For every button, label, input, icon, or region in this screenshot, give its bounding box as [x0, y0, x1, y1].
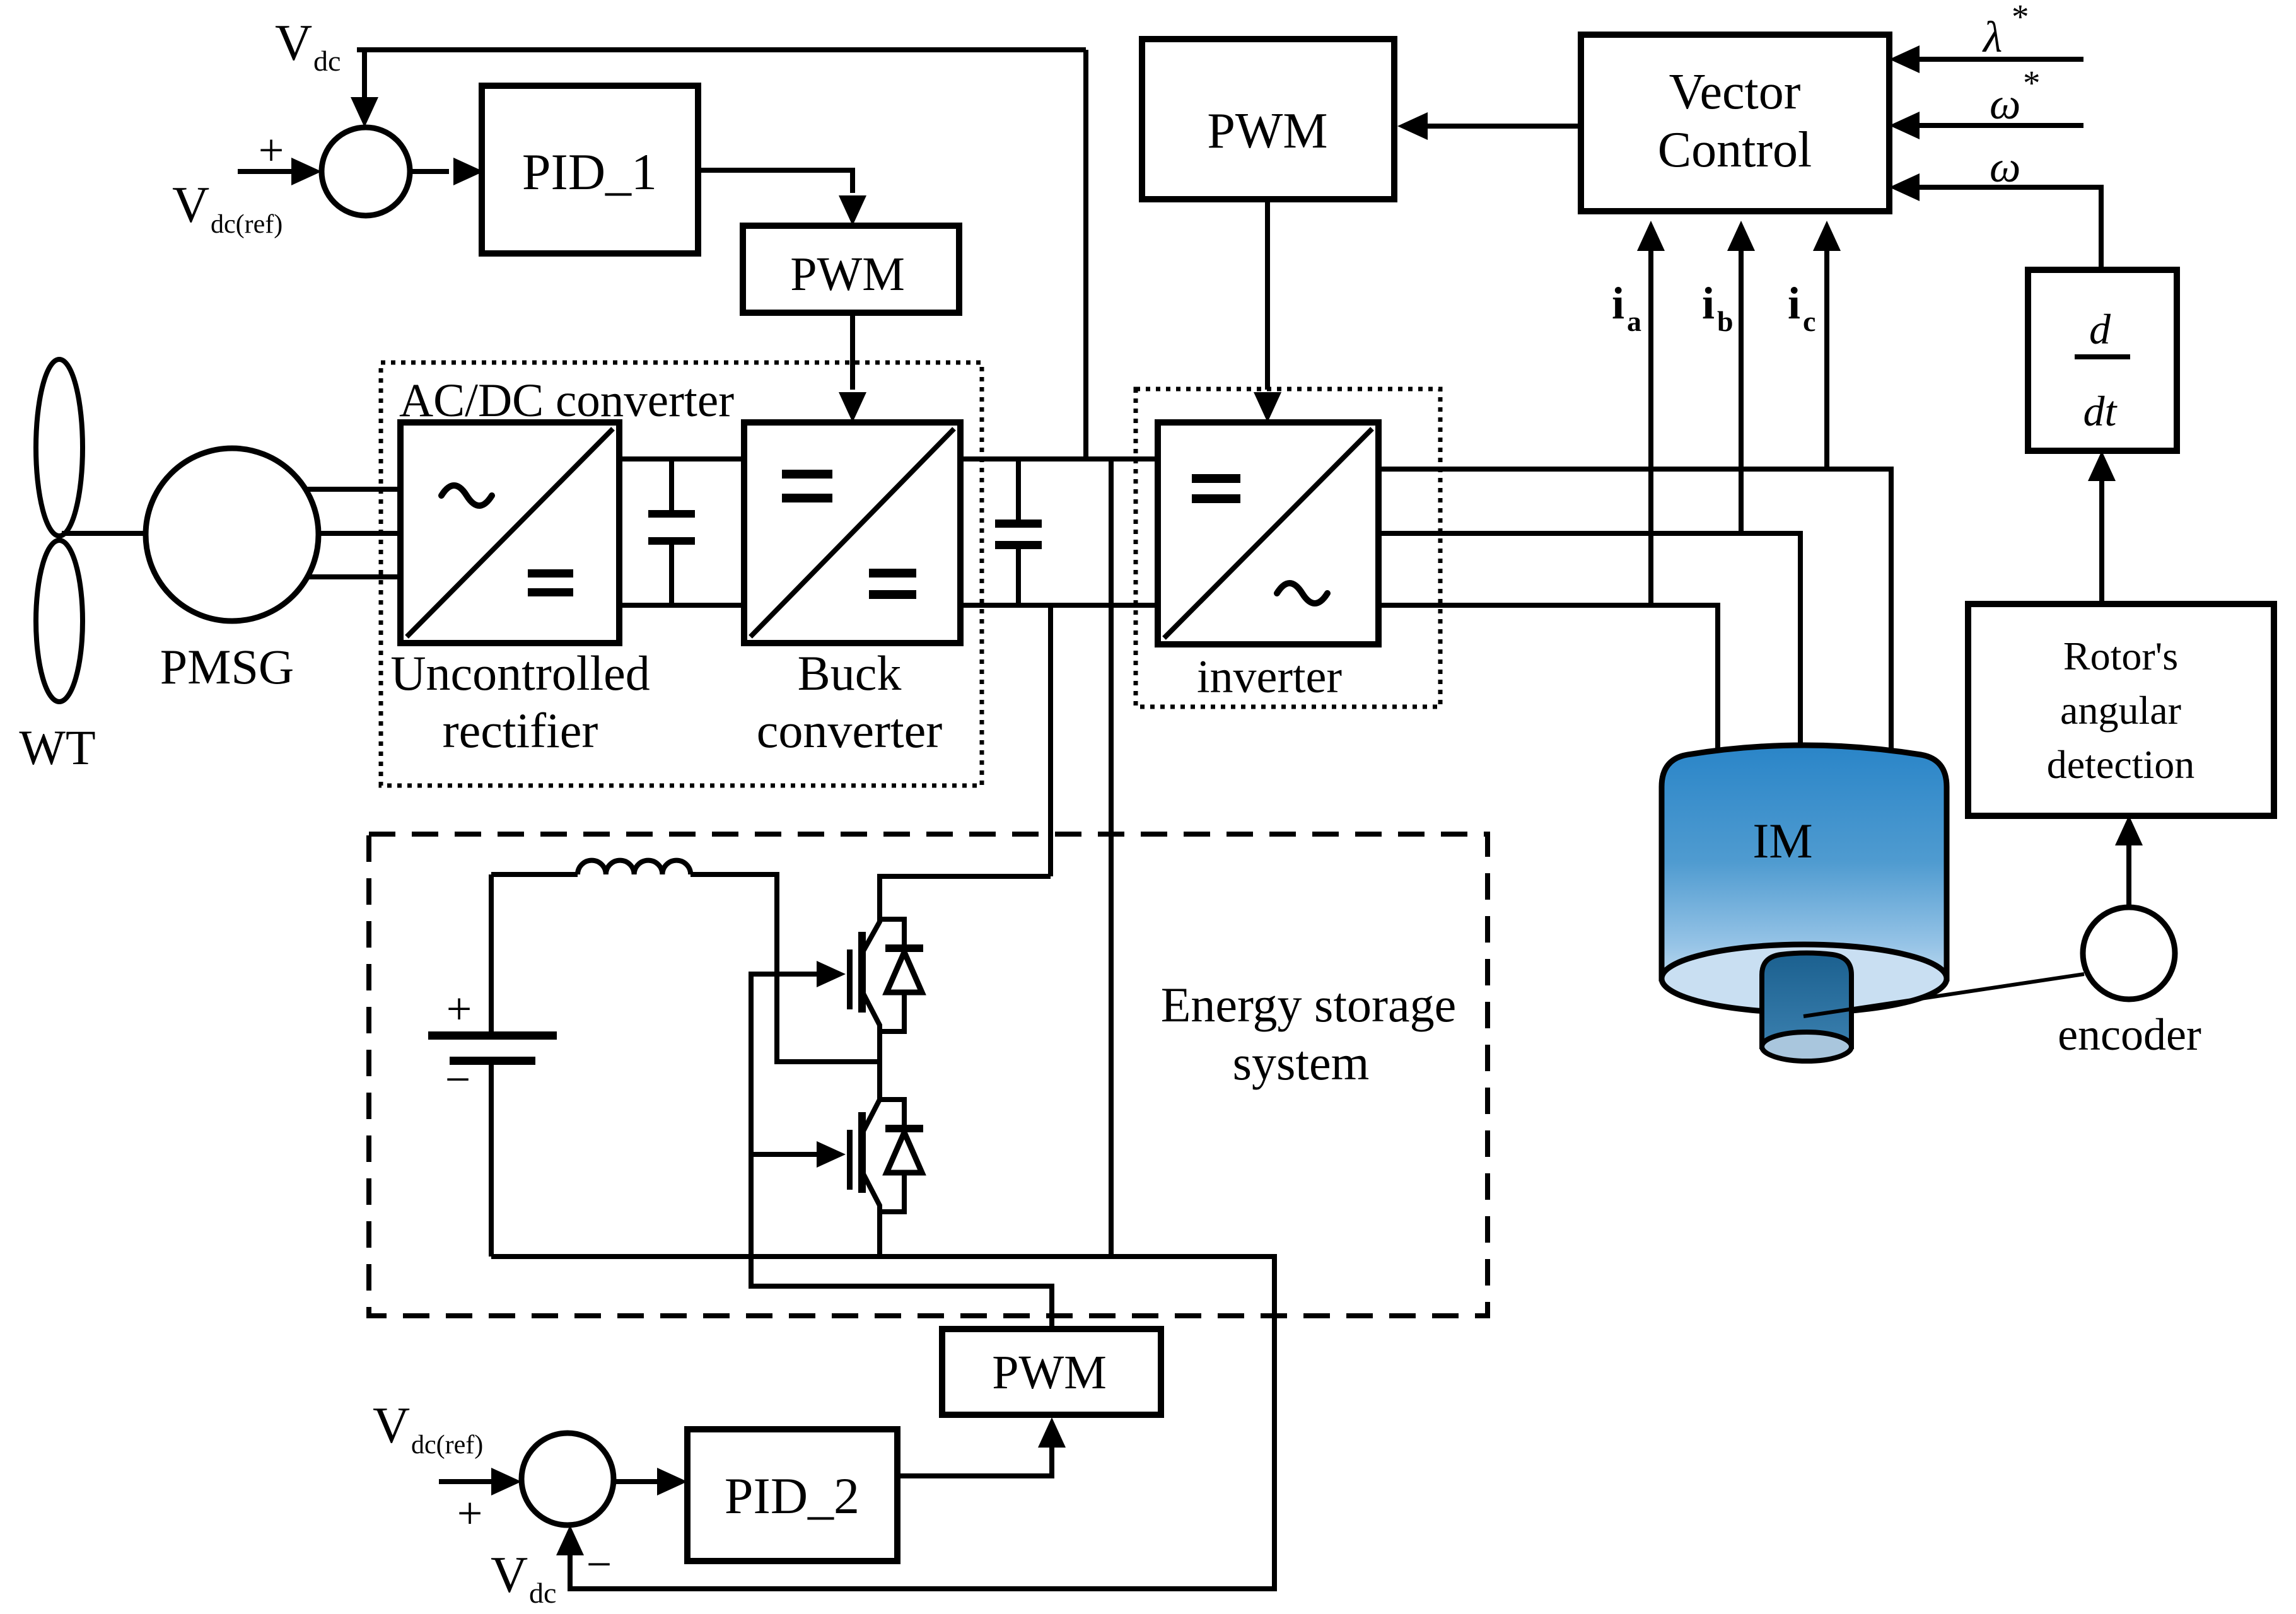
svg-text:*: * — [2023, 64, 2041, 102]
converter U2 buck converter box — [744, 422, 960, 643]
wire Vdc drop into summing junction S1 — [362, 47, 367, 100]
svg-text:Uncontrolled: Uncontrolled — [390, 646, 650, 700]
motor shaft bottom ellipse — [1762, 1032, 1851, 1061]
wire lambda* reference input — [1920, 57, 2083, 62]
wire DC-link bottom bus — [960, 603, 1158, 608]
svg-text:+: + — [446, 984, 472, 1034]
rectifier DC symbol = — [528, 569, 573, 578]
svg-text:*: * — [2012, 0, 2029, 36]
svg-text:c: c — [1803, 305, 1815, 337]
capacitor C1 leads — [669, 459, 674, 605]
svg-text:PWM: PWM — [790, 248, 905, 301]
wire rectifier to buck bottom — [619, 603, 744, 608]
wire WT shaft to PMSG — [62, 531, 149, 536]
wire S1 output into PID_1 — [410, 169, 449, 174]
svg-text:PID_2: PID_2 — [725, 1467, 860, 1524]
block Rotor's angular detection — [1968, 604, 2274, 816]
motor IM body (cylinder) — [1662, 745, 1947, 978]
summing junction S1 — [322, 127, 410, 216]
motor shaft cylinder — [1762, 953, 1851, 1047]
wire current sense ib to Vector Control — [1739, 251, 1744, 533]
rectifier diagonal — [407, 429, 613, 637]
wire PMSG phase b to rectifier — [315, 531, 400, 536]
wire Vector Control to PWM2 — [1428, 124, 1581, 129]
svg-text:angular: angular — [2060, 688, 2181, 733]
svg-text:PID_1: PID_1 — [522, 143, 657, 200]
motor IM bottom face ellipse — [1662, 944, 1947, 1013]
svg-text:PWM: PWM — [1207, 103, 1327, 159]
svg-text:converter: converter — [757, 703, 943, 758]
dotted box inverter — [1136, 389, 1440, 707]
svg-text:λ: λ — [1982, 13, 2002, 62]
transistor Q1 channel bar — [858, 932, 866, 1013]
svg-text:AC/DC converter: AC/DC converter — [399, 374, 734, 427]
svg-text:encoder: encoder — [2058, 1009, 2201, 1060]
battery B1 short plate — [450, 1057, 535, 1065]
wire rectifier to buck top — [619, 456, 744, 462]
wire inductor to half-bridge midpoint — [691, 874, 880, 1062]
inverter diagonal — [1164, 429, 1372, 638]
wire encoder up to rotor detection — [2126, 845, 2131, 907]
svg-text:i: i — [1702, 278, 1715, 328]
svg-text:−: − — [586, 1539, 612, 1589]
wire inverter phase 1 output to IM — [1378, 469, 1891, 782]
wire rotor detection up to d/dt — [2099, 481, 2104, 603]
wire Vdc(ref) input arrow into S1 — [238, 169, 295, 174]
controller Vector Control box — [1581, 35, 1889, 211]
block d/dt differentiator — [2028, 270, 2177, 451]
svg-text:system: system — [1233, 1035, 1370, 1090]
svg-text:rectifier: rectifier — [443, 703, 598, 758]
wind turbine WT blade 2 — [36, 540, 83, 702]
transistor Q2 emitter lead — [862, 1171, 880, 1257]
svg-text:PWM: PWM — [992, 1346, 1107, 1399]
buck diagonal — [750, 429, 954, 637]
svg-text:dt: dt — [2083, 387, 2118, 435]
svg-text:dc(ref): dc(ref) — [211, 210, 283, 239]
svg-text:Vector: Vector — [1669, 64, 1801, 120]
wire DC link to energy storage half-bridge — [1048, 605, 1053, 876]
buck DC symbol = top-left — [782, 470, 832, 479]
block PWM1 (buck gate PWM) — [743, 226, 959, 313]
wire S2 output into PID_2 — [614, 1479, 657, 1484]
battery B1 long plate — [428, 1031, 557, 1040]
inverter AC symbol ~ — [1277, 583, 1327, 603]
controller PID_1 — [482, 86, 698, 253]
svg-text:+: + — [457, 1488, 483, 1538]
transistor Q1 emitter lead — [862, 991, 880, 1102]
wire gate drive bus — [751, 972, 1052, 1329]
block PWM2 (inverter PWM) — [1142, 39, 1394, 199]
svg-text:ω: ω — [1990, 143, 2020, 192]
battery B1 positive wire — [489, 874, 494, 1031]
battery B1 negative wire — [489, 1065, 494, 1257]
wire omega feedback from d/dt — [1920, 185, 2101, 270]
sensor encoder circle — [2083, 907, 2175, 999]
wire omega* reference input — [1920, 123, 2083, 128]
svg-text:PMSG: PMSG — [160, 639, 294, 694]
svg-text:inverter: inverter — [1197, 651, 1342, 703]
wire Vdc feedback: top horizontal from summing junction to DC-link tap — [357, 47, 1086, 52]
wire battery negative rail — [491, 1254, 1274, 1259]
converter U3 inverter box — [1158, 422, 1378, 644]
inductor L1 — [578, 861, 691, 874]
wire DC link to energy storage (positive) — [1109, 459, 1114, 1257]
transistor Q2 gate bar — [847, 1130, 853, 1190]
wire PWM2 down to inverter — [1265, 199, 1270, 390]
summing junction S2 — [522, 1433, 614, 1525]
transistor Q2 collector lead — [862, 1100, 880, 1134]
svg-text:detection: detection — [2047, 742, 2195, 787]
capacitor C1 plates — [648, 510, 695, 518]
wire encoder pointer line to shaft — [1804, 974, 2084, 1016]
svg-text:−: − — [445, 1054, 471, 1105]
wire Vdc(ref) input arrow into S2 — [439, 1479, 494, 1484]
capacitor C2 plates — [995, 520, 1042, 528]
svg-text:i: i — [1612, 278, 1624, 328]
inverter DC symbol = — [1192, 474, 1240, 483]
block PWM3 (storage converter PWM) — [942, 1329, 1161, 1415]
wire inverter phase 2 output to IM — [1378, 533, 1800, 782]
transistor Q2 channel bar — [858, 1112, 866, 1193]
svg-text:i: i — [1788, 278, 1800, 328]
wire half-bridge top rail — [877, 874, 1051, 879]
diode D1 triangle — [887, 952, 922, 992]
diode D2 triangle — [887, 1132, 922, 1173]
wire Vdc feedback to S2 (right drop and bottom run) — [570, 1254, 1274, 1589]
generator PMSG — [146, 448, 318, 621]
svg-text:V: V — [491, 1546, 528, 1603]
svg-text:dc(ref): dc(ref) — [411, 1431, 483, 1460]
buck DC symbol = bottom-right — [869, 569, 916, 578]
diode D2 cathode bar — [885, 1125, 923, 1132]
svg-text:b: b — [1717, 305, 1734, 337]
wire battery to inductor — [491, 872, 578, 877]
wire PID_1 output to PWM block 1 — [696, 170, 853, 193]
wire Q1 gate lead — [751, 972, 819, 977]
diode D1 cathode bar — [885, 944, 923, 952]
svg-text:Control: Control — [1658, 122, 1812, 178]
svg-text:ω: ω — [1990, 80, 2020, 129]
svg-text:Energy storage: Energy storage — [1161, 977, 1457, 1032]
svg-text:WT: WT — [19, 720, 95, 775]
wire Vdc sense drop to DC link — [1083, 50, 1088, 459]
svg-text:d: d — [2089, 305, 2111, 353]
capacitor C2 leads (DC link) — [1016, 459, 1021, 605]
wire current sense ia to Vector Control — [1648, 251, 1653, 605]
wire PMSG phase c to rectifier — [305, 574, 400, 579]
wind turbine WT blade 1 — [36, 359, 83, 536]
transistor Q1 gate bar — [847, 949, 853, 1009]
svg-text:dc: dc — [529, 1577, 556, 1609]
transistor Q1 collector lead — [862, 874, 880, 953]
svg-text:+: + — [259, 125, 284, 175]
controller PID_2 — [687, 1429, 897, 1561]
converter U1 uncontrolled rectifier box — [400, 422, 619, 643]
wire PMSG phase a to rectifier — [303, 487, 400, 492]
wire Q2 gate lead — [751, 1152, 819, 1157]
svg-text:a: a — [1627, 305, 1641, 337]
svg-text:Buck: Buck — [798, 646, 902, 700]
diode D1 leads — [877, 919, 904, 1031]
svg-text:V: V — [172, 176, 209, 233]
rectifier AC symbol ~ — [441, 485, 492, 506]
dotted box AC/DC converter — [381, 363, 982, 786]
svg-text:IM: IM — [1752, 813, 1812, 868]
svg-text:dc: dc — [313, 45, 341, 77]
diode D2 leads — [877, 1100, 904, 1212]
svg-text:Rotor's: Rotor's — [2063, 634, 2178, 678]
wire current sense ic to Vector Control — [1824, 251, 1829, 469]
dashed box Energy storage system — [369, 834, 1488, 1316]
wire inverter phase 3 output to IM — [1378, 605, 1718, 782]
svg-text:V: V — [275, 14, 312, 71]
svg-text:V: V — [373, 1396, 410, 1454]
wire PWM1 output down to buck converter — [850, 313, 855, 390]
wire DC-link top bus — [960, 456, 1158, 462]
wire PID_2 output to PWM3 — [897, 1448, 1052, 1476]
